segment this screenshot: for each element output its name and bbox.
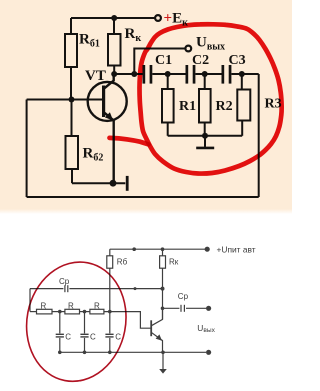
node rail cap2 junction	[83, 351, 87, 355]
svg-text:C1: C1	[155, 53, 172, 68]
ground bar of RC ladder	[196, 147, 214, 150]
wire Rk top lead	[113, 18, 115, 34]
resistor Rk	[108, 34, 121, 66]
ground stub bottom schematic	[162, 352, 164, 369]
resistor R first body	[37, 309, 53, 314]
wire ladder seg2	[80, 311, 90, 313]
node R1 top junction	[165, 71, 171, 77]
wire ladder start	[30, 311, 37, 313]
capacitor Cp output plates	[180, 305, 182, 312]
wire Rb1 top lead	[70, 18, 72, 34]
node rail stray junction	[132, 247, 136, 251]
terminal +Upit dot	[205, 247, 210, 252]
node feedback collector junction	[161, 287, 165, 291]
wire C1-C2 segment	[152, 73, 185, 75]
svg-text:Rб: Rб	[117, 258, 128, 267]
node ladder junction 1	[58, 310, 62, 314]
capacitor C2 plates bottom schematic	[80, 333, 88, 335]
wire top supply rail	[71, 17, 155, 19]
wire Rb2 bottom lead	[71, 169, 73, 183]
svg-text:C: C	[90, 332, 96, 341]
terminal +Ek circle	[155, 15, 161, 21]
transistor emitter arrow bottom schematic	[156, 334, 162, 340]
capacitor C2 plates	[186, 65, 189, 84]
resistor R second body	[65, 309, 80, 314]
wire cap C3 to rail	[109, 338, 111, 352]
wire base horizontal	[27, 99, 103, 101]
transistor base bar bottom schematic	[150, 320, 152, 336]
wire Rb lead down through ladder to cap C3	[109, 268, 111, 333]
transistor VT base bar	[102, 86, 105, 118]
wire bottom feedback rail	[27, 196, 259, 198]
wire Rb top lead	[109, 249, 111, 256]
node emitter ground junction	[110, 180, 117, 187]
svg-text:Cp: Cp	[178, 292, 189, 301]
svg-text:C2: C2	[192, 53, 209, 68]
wire ladder seg1	[52, 311, 65, 313]
capacitor Cp feedback plates	[64, 285, 66, 292]
node RC ladder ground junction	[202, 133, 208, 139]
wire Rb1 bottom lead	[70, 67, 72, 101]
transistor VT collector diagonal	[105, 74, 114, 88]
wire right feedback vertical	[258, 74, 260, 197]
svg-text:C: C	[115, 332, 121, 341]
ground stub of RC ladder	[204, 136, 206, 147]
svg-text:R2: R2	[216, 99, 233, 114]
wire R1 bottom lead	[167, 123, 169, 136]
node rail cap3 junction	[108, 351, 112, 355]
wire bottom ground rail	[60, 351, 206, 353]
wire ladder left vertical	[29, 289, 31, 312]
capacitor C1 plates bottom schematic	[56, 333, 64, 335]
transistor emitter diagonal bottom schematic	[151, 332, 162, 352]
svg-text:R: R	[94, 301, 100, 310]
node Rk rail junction	[161, 247, 165, 251]
resistor Rk body	[160, 256, 166, 268]
terminal Uout bottom dot	[206, 350, 211, 355]
svg-text:C3: C3	[229, 53, 246, 68]
red marker loop around RC network	[140, 24, 282, 173]
svg-text:VT: VT	[85, 68, 106, 84]
resistor Rb2	[66, 136, 79, 169]
red pen ellipse around phase-shift network	[16, 253, 136, 390]
transistor collector diagonal bottom schematic	[151, 308, 162, 326]
resistor Rb1	[65, 34, 77, 67]
resistor R3	[237, 90, 250, 121]
wire Rb2 top lead	[71, 100, 73, 137]
transistor VT emitter arrow	[105, 112, 113, 120]
wire Rk top lead	[162, 249, 164, 256]
resistor Rb body	[107, 256, 113, 268]
node ladder junction 2	[83, 310, 87, 314]
wire output right segment	[186, 307, 206, 309]
wire cap C2 column	[84, 312, 86, 334]
svg-text:R: R	[68, 301, 74, 310]
capacitor C3 plates	[222, 65, 225, 84]
node base junction	[69, 97, 75, 103]
node ladder junction 3	[108, 310, 112, 314]
transistor VT body circle	[88, 82, 127, 121]
capacitor C3 plates bottom schematic	[105, 333, 113, 335]
wire cap C1 column	[59, 312, 61, 334]
node rail emitter junction	[161, 351, 165, 355]
svg-text:R: R	[41, 301, 47, 310]
resistor R1	[162, 89, 174, 123]
wire R2 top stub	[204, 74, 206, 89]
wire C3-right segment	[232, 73, 259, 75]
wire R3 bottom lead	[241, 121, 243, 136]
wire cap C1 to rail	[59, 338, 61, 352]
node R2 top junction	[202, 71, 208, 77]
svg-text:+Uпит авт: +Uпит авт	[217, 245, 256, 255]
svg-text:Rк: Rк	[169, 258, 179, 267]
svg-text:Cp: Cp	[59, 277, 70, 286]
node Uout branch junction	[131, 71, 137, 77]
resistor R2	[199, 89, 211, 123]
wire Rk bottom lead to collector node	[162, 268, 164, 319]
capacitor C1 plates	[143, 65, 146, 84]
wire R1 top stub	[167, 74, 169, 89]
wire cap C2 to rail	[84, 338, 86, 352]
wire C2-C3 segment	[195, 73, 221, 75]
red marker tail stroke	[110, 138, 149, 145]
wire supply rail bottom schematic	[110, 248, 205, 250]
ground bar at emitter	[126, 176, 129, 191]
wire Uout branch vertical	[134, 49, 185, 75]
wire feedback with Cp right segment	[69, 288, 162, 290]
terminal Uout top dot	[206, 306, 211, 311]
wire emitter ground line	[72, 182, 125, 184]
node rail cap1 junction	[58, 351, 62, 355]
transistor VT emitter diagonal	[105, 113, 114, 183]
wire feedback with Cp left segment	[30, 288, 63, 290]
svg-text:C: C	[65, 332, 71, 341]
wire Rk bottom lead	[113, 66, 115, 75]
node junction on supply rail	[111, 15, 117, 21]
wire left feedback vertical	[26, 100, 28, 198]
svg-text:R1: R1	[179, 99, 196, 114]
wire R3 top stub	[241, 74, 243, 90]
node feedback stray junction	[134, 287, 137, 290]
ground arrow bottom schematic	[159, 369, 167, 374]
node R3 top junction	[239, 71, 245, 77]
resistor R third body	[90, 309, 104, 314]
wire output left segment	[163, 307, 180, 309]
wire ladder to base corner	[104, 312, 151, 329]
terminal Uout circle	[185, 46, 191, 52]
wire collector to coupling chain	[114, 73, 143, 75]
wire R2 bottom lead	[204, 123, 206, 136]
node collector junction	[111, 71, 117, 77]
node collector output junction	[161, 307, 165, 311]
wire RC ladder bottom	[168, 135, 243, 137]
